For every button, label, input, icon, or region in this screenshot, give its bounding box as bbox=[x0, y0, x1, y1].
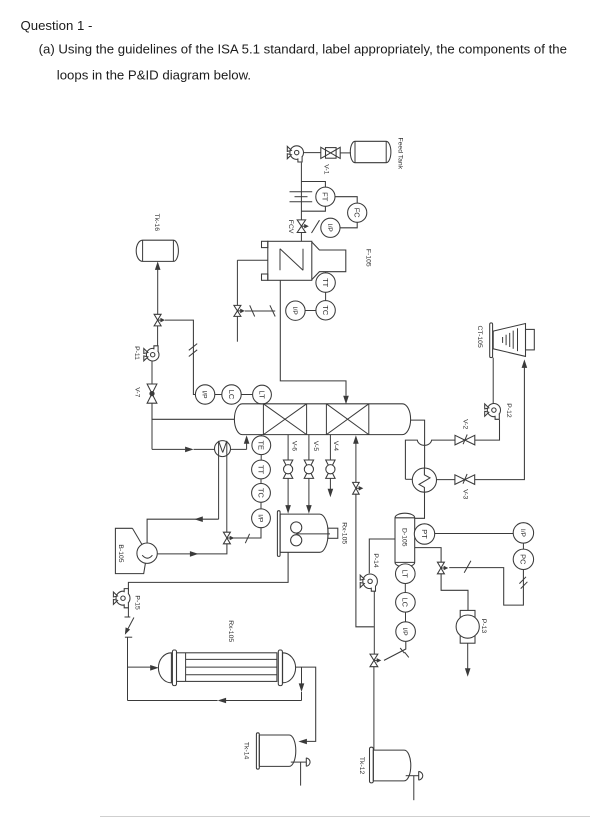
signal I/P to Tk-12 valve with slashes bbox=[384, 641, 409, 660]
svg-text:loops in the P&ID diagram belo: loops in the P&ID diagram below. bbox=[57, 67, 251, 82]
furnace heating coil bbox=[280, 249, 303, 270]
wire valve to Tk-12 bbox=[373, 667, 375, 750]
svg-text:LC: LC bbox=[227, 390, 236, 400]
wire exchanger outlet to Tk-14 bbox=[296, 667, 316, 744]
wire P-13 outlet with arrow bbox=[465, 643, 471, 677]
instrument TT (furnace temperature transmitter) bbox=[316, 273, 335, 292]
wire junction down to reboiler bbox=[152, 419, 215, 452]
instrument TE (temperature element) bbox=[252, 436, 271, 455]
wire Tk-14 outlet and vent pump bbox=[291, 758, 310, 786]
svg-text:P-11: P-11 bbox=[133, 346, 140, 360]
svg-text:V-1: V-1 bbox=[322, 164, 329, 174]
wire condenser to D-105 bbox=[415, 492, 425, 518]
wire LC to I/P bbox=[405, 612, 407, 622]
svg-text:Tk-12: Tk-12 bbox=[358, 757, 365, 775]
valve V-4 bbox=[326, 441, 339, 479]
svg-text:V-2: V-2 bbox=[462, 419, 469, 429]
svg-text:P-15: P-15 bbox=[133, 595, 140, 610]
wire P-14 discharge bbox=[373, 591, 375, 655]
pump feed (top, near Feed Tank) bbox=[287, 146, 303, 162]
svg-text:V-7: V-7 bbox=[134, 387, 141, 397]
wire FT to FC bbox=[335, 197, 357, 204]
instrument I/P (pressure loop transducer) bbox=[513, 523, 533, 543]
wire FCV to furnace bbox=[300, 233, 302, 242]
svg-text:I/P: I/P bbox=[326, 224, 333, 233]
vessel Feed Tank (horizontal drum) bbox=[350, 137, 403, 169]
wire TE to TT bbox=[260, 455, 262, 461]
wire valve to pump P-11 bbox=[157, 326, 159, 346]
instrument I/P (feed flow transducer) bbox=[321, 218, 340, 237]
wire valve to P-13 bbox=[441, 574, 468, 611]
wire V-7 to column left end bbox=[152, 403, 234, 419]
svg-text:LT: LT bbox=[401, 570, 410, 579]
svg-text:I/P: I/P bbox=[291, 307, 298, 316]
svg-text:V-5: V-5 bbox=[312, 441, 319, 451]
wire condenser outlet water bbox=[437, 479, 456, 481]
instrument FT (flow transmitter) bbox=[316, 187, 335, 206]
valve FCV (flow control valve) bbox=[287, 220, 309, 234]
wire column overhead to condenser bbox=[411, 420, 425, 468]
svg-text:Rx-105: Rx-105 bbox=[341, 522, 348, 544]
wire column to V-4 bbox=[329, 435, 331, 460]
signal I/P to reboiler valve with slash bbox=[233, 528, 261, 544]
svg-text:P-14: P-14 bbox=[372, 553, 379, 568]
heater B-105 bbox=[115, 528, 157, 573]
wire TC to I/P bbox=[260, 502, 262, 509]
wire recycle branch with arrows bbox=[128, 667, 305, 703]
line break jog with arrow below P-15 bbox=[123, 608, 134, 701]
signal slash I/P to FCV bbox=[312, 220, 320, 233]
wire I/P to PC bbox=[522, 543, 524, 549]
wire pump down through orifice to FCV bbox=[300, 163, 302, 220]
svg-text:PC: PC bbox=[519, 554, 528, 565]
valve reboiler heating control bbox=[223, 532, 234, 544]
svg-text:P-12: P-12 bbox=[505, 403, 512, 418]
wire valve down to junction bbox=[356, 494, 374, 627]
condenser exchanger (circle with coil) bbox=[412, 468, 436, 492]
instrument I/P (drum level transducer) bbox=[396, 622, 416, 642]
svg-text:FCV: FCV bbox=[287, 220, 294, 234]
svg-text:V-3: V-3 bbox=[461, 489, 468, 499]
svg-text:(a) Using the guidelines of th: (a) Using the guidelines of the ISA 5.1 … bbox=[39, 41, 567, 56]
wire TT to TC bbox=[325, 292, 327, 300]
svg-text:TC: TC bbox=[256, 488, 265, 499]
wire I/P to LC bbox=[215, 394, 222, 396]
wire LT to LC bbox=[404, 584, 406, 593]
stub stack to TT bbox=[325, 272, 327, 273]
svg-text:F-105: F-105 bbox=[365, 249, 372, 267]
vessel Tk-12 bbox=[358, 747, 411, 783]
reboiler exchanger (M-circle) bbox=[215, 441, 231, 533]
wire condenser left stub bbox=[405, 478, 412, 480]
svg-text:I/P: I/P bbox=[257, 514, 264, 523]
svg-text:V-4: V-4 bbox=[332, 441, 339, 451]
furnace F-105 body bbox=[268, 241, 372, 280]
svg-text:P-13: P-13 bbox=[480, 619, 487, 634]
svg-text:TT: TT bbox=[256, 465, 265, 475]
arrow B-105 outlet bbox=[190, 551, 199, 557]
wire reboiler to column with arrow bbox=[231, 435, 250, 449]
svg-text:I/P: I/P bbox=[401, 628, 408, 637]
valve fuel control (furnace) bbox=[234, 305, 245, 316]
valve V-7 (ball valve) bbox=[134, 384, 157, 403]
signal PC to drum valve with slashes bbox=[449, 561, 527, 605]
instrument LT (column level transmitter) bbox=[253, 385, 272, 404]
valve reflux control (level loop) bbox=[154, 314, 165, 326]
pump P-15 bbox=[113, 589, 140, 610]
svg-text:TC: TC bbox=[321, 305, 330, 316]
wire into exchanger with arrow bbox=[128, 665, 159, 671]
wire column bottoms to junction bbox=[353, 435, 359, 482]
wire CT basin to P-12 bbox=[492, 358, 494, 404]
vessel Tk-16 (horizontal drum) bbox=[136, 214, 178, 262]
wire furnace outlet to column C-105 bbox=[280, 280, 349, 404]
svg-text:CT-105: CT-105 bbox=[476, 325, 483, 348]
svg-text:LC: LC bbox=[401, 598, 410, 608]
wire LC to LT bbox=[241, 394, 252, 396]
svg-text:FT: FT bbox=[321, 192, 330, 202]
wire condenser water line with hop bbox=[405, 440, 455, 479]
wire V-4 drain with arrow bbox=[328, 478, 334, 497]
valve Tk-12 feed control bbox=[370, 654, 381, 667]
drum D-105 bbox=[395, 513, 415, 567]
wire into Tk-16 with arrow bbox=[155, 261, 161, 314]
instrument TT (column temperature transmitter) bbox=[252, 460, 271, 479]
wire reactor bottom to P-15 bbox=[128, 552, 288, 591]
instrument I/P (fuel valve transducer) bbox=[286, 301, 305, 320]
column packing section X1 bbox=[263, 404, 306, 435]
exchanger Rx-105 (shell and tube) bbox=[158, 620, 295, 685]
furnace burner tab lower bbox=[262, 274, 268, 280]
vessel Tk-14 bbox=[242, 733, 296, 769]
header text bbox=[21, 18, 567, 83]
svg-text:Tk-16: Tk-16 bbox=[153, 214, 160, 232]
wire P-11 to V-7 bbox=[151, 361, 153, 384]
instrument LT (drum level transmitter) bbox=[396, 564, 416, 584]
valve V-1 (gate valve with box body) bbox=[321, 147, 340, 174]
valve V-2 bbox=[455, 419, 475, 445]
wire V-5 to reactor bbox=[306, 478, 312, 513]
reactor Rx-105 vessel bbox=[277, 511, 347, 557]
wire TC to I/P bbox=[305, 310, 316, 312]
wire valve down to B-105 bbox=[158, 544, 227, 554]
wire Tk-12 outlet and vent pump bbox=[406, 771, 423, 800]
wire pump to V-1 bbox=[304, 152, 322, 154]
wire FC to I/P bbox=[340, 222, 357, 228]
svg-text:V-6: V-6 bbox=[290, 441, 297, 451]
flow orifice element FE bbox=[290, 192, 313, 202]
instrument LC (level controller) bbox=[222, 385, 241, 404]
wire V-6 to reactor bbox=[285, 478, 291, 513]
stub column to TE bbox=[260, 435, 262, 436]
svg-text:I/P: I/P bbox=[201, 390, 208, 399]
page artifact bottom bbox=[100, 816, 590, 818]
wire drum outlet right bbox=[415, 548, 441, 563]
signal PT to I/P bbox=[435, 533, 514, 535]
valve column bottoms bbox=[353, 482, 364, 494]
wire TT to TC bbox=[260, 479, 262, 484]
svg-text:Tk-14: Tk-14 bbox=[242, 742, 249, 760]
valve V-5 bbox=[304, 441, 319, 479]
column packing section X2 bbox=[326, 404, 368, 435]
instrument PC (pressure controller) bbox=[513, 549, 533, 569]
column C-105 shell bbox=[234, 404, 410, 435]
instrument PT (pressure transmitter) bbox=[414, 524, 434, 544]
wire drum to P-14 bbox=[369, 539, 395, 573]
wire V-1 to Feed Tank bbox=[340, 152, 351, 154]
instrument I/P (level loop transducer) bbox=[195, 385, 214, 404]
wire B-105 top loop with arrow bbox=[147, 516, 219, 543]
pump P-11 bbox=[133, 346, 159, 361]
svg-text:Rx-105: Rx-105 bbox=[227, 620, 234, 642]
svg-text:D-105: D-105 bbox=[400, 528, 407, 547]
instrument FC (flow controller) bbox=[348, 203, 367, 222]
instrument LC (drum level controller) bbox=[396, 593, 416, 613]
furnace stack bbox=[312, 242, 346, 280]
svg-text:FC: FC bbox=[353, 208, 362, 219]
wire fuel supply line bbox=[237, 260, 267, 342]
svg-text:TE: TE bbox=[257, 440, 266, 450]
valve V-6 bbox=[283, 441, 297, 479]
svg-text:Feed Tank: Feed Tank bbox=[396, 137, 403, 169]
valve drum pressure letdown bbox=[437, 562, 448, 574]
wire column to V-6 bbox=[287, 435, 289, 460]
instrument TC (column temperature controller) bbox=[252, 484, 271, 503]
signal valve to I/P with slashes bbox=[165, 320, 197, 394]
pump P-13 (canned) bbox=[456, 610, 487, 643]
valve V-3 bbox=[455, 474, 475, 500]
wire column to V-5 bbox=[308, 435, 310, 460]
svg-text:LT: LT bbox=[257, 391, 266, 400]
svg-text:B-105: B-105 bbox=[117, 544, 124, 562]
svg-text:I/P: I/P bbox=[519, 529, 526, 538]
cooling tower CT-105 bbox=[476, 323, 534, 358]
signal fuel valve to I/P with slashes bbox=[245, 305, 275, 316]
svg-text:Question 1 -: Question 1 - bbox=[21, 18, 93, 33]
wire V-2 to P-12 discharge bbox=[475, 420, 500, 440]
pump P-12 bbox=[485, 403, 512, 419]
svg-text:PT: PT bbox=[420, 529, 429, 539]
instrument I/P (reboiler transducer) bbox=[252, 509, 271, 528]
furnace burner tab upper bbox=[262, 241, 268, 247]
pump P-14 bbox=[360, 553, 379, 591]
instrument TC (furnace temperature controller) bbox=[316, 301, 335, 320]
wire V-3 to cooling tower with arrow bbox=[475, 359, 528, 479]
svg-text:TT: TT bbox=[321, 278, 330, 288]
wire orifice taps to FT bbox=[301, 182, 325, 212]
